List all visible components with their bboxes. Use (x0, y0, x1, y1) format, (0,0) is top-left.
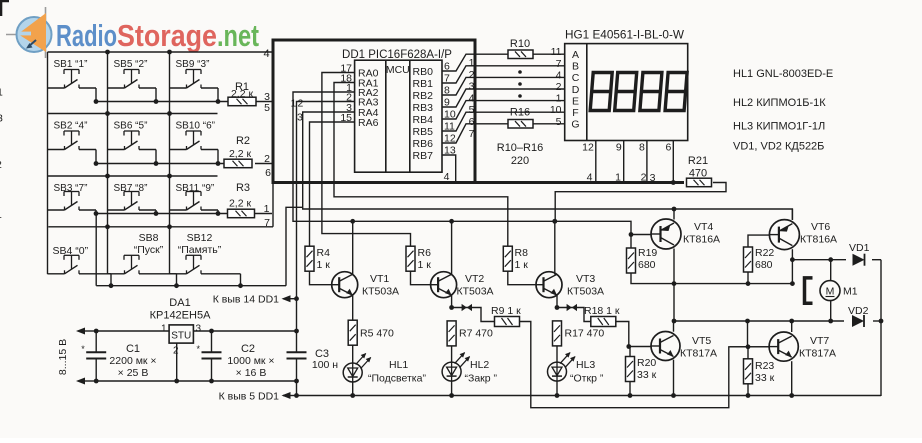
transistor VT6 (769, 220, 837, 250)
svg-text:R10–R16: R10–R16 (497, 142, 543, 154)
wire VT4 to VT5 (672, 249, 677, 324)
svg-text:E: E (572, 95, 579, 107)
pushbutton SB4 (48, 245, 112, 286)
wire motor bottom (674, 319, 882, 324)
pushbutton SB10 "6" (170, 121, 219, 164)
svg-text:5: 5 (264, 102, 270, 114)
svg-text:33 к: 33 к (637, 369, 657, 381)
wire R20 top (629, 347, 630, 357)
pushbutton SB9 "3" (170, 59, 219, 102)
digit select numbers 4 1 2 3 (587, 172, 656, 185)
wire R23 top (747, 347, 749, 359)
svg-text:RB1: RB1 (413, 78, 434, 90)
wire display pin 6 down (671, 141, 676, 185)
wire RB5 to R15 (442, 112, 473, 131)
resistor R21 (687, 155, 712, 187)
svg-text:2: 2 (173, 346, 179, 357)
svg-text:4: 4 (444, 171, 450, 183)
capacitor C3 (287, 331, 339, 381)
svg-text:2: 2 (298, 98, 304, 110)
svg-text:VT2: VT2 (465, 273, 484, 285)
svg-text:C: C (572, 72, 580, 84)
display digit 3 (640, 73, 662, 111)
svg-text:VD1: VD1 (849, 242, 870, 254)
wire RA4 to bridge top (303, 112, 793, 220)
svg-text:VT7: VT7 (810, 335, 829, 347)
svg-text:5: 5 (469, 104, 475, 116)
wire row2 bottom (94, 161, 272, 166)
wire R4 base VT1 (310, 271, 332, 285)
wire row3 bottom (94, 211, 272, 216)
svg-text:220: 220 (511, 155, 529, 167)
wire ground bottom (297, 395, 882, 397)
pin labels 1 2 (291, 98, 304, 110)
wire display pin 12 down (595, 141, 597, 183)
pin labels 2/6 (264, 153, 271, 179)
svg-text:R16: R16 (510, 107, 530, 119)
display HG1 box (565, 44, 688, 141)
svg-text:A: A (572, 49, 579, 61)
svg-text:HL3 КИПМО1Г-1Л: HL3 КИПМО1Г-1Л (733, 121, 825, 133)
svg-text:R23: R23 (755, 360, 774, 372)
power input arrows (76, 328, 96, 385)
svg-text:VT5: VT5 (692, 335, 711, 347)
wire HL2 to ground (449, 381, 454, 398)
transistor VT7 (769, 332, 836, 361)
svg-text:RA6: RA6 (358, 117, 379, 129)
svg-text:4: 4 (264, 48, 270, 60)
svg-text:7: 7 (469, 128, 475, 140)
capacitor C1 (81, 331, 156, 381)
svg-text:“Память”: “Память” (178, 244, 222, 256)
wire VT1 collector (352, 221, 354, 274)
wire segment row (473, 88, 565, 90)
svg-text:КТ816А: КТ816А (800, 234, 837, 246)
wire VT2 to R9 (452, 304, 495, 322)
parts list VD1 VD2 (733, 141, 824, 153)
wire HL3 to ground (555, 381, 560, 398)
svg-text:2,2 к: 2,2 к (231, 88, 254, 100)
svg-text:1 к: 1 к (317, 259, 331, 271)
wire R18 to VT5 base (616, 322, 631, 349)
wire VT7 base (730, 344, 769, 349)
parts list HL2 (733, 97, 826, 109)
LED HL2 (442, 352, 497, 384)
svg-text:2: 2 (264, 153, 270, 165)
svg-text:HL3: HL3 (576, 359, 595, 371)
wire VT7 emitter (789, 361, 794, 398)
svg-text:SB12: SB12 (187, 232, 213, 244)
pushbutton SB6 "5" (108, 121, 157, 164)
svg-text:MCU: MCU (386, 64, 410, 76)
svg-text:2,2 к: 2,2 к (229, 148, 252, 160)
wire VT3 to R18 (557, 304, 591, 322)
wire segment row (473, 100, 565, 102)
svg-text:VT6: VT6 (811, 221, 830, 233)
svg-text:HL1 GNL-8003ED-E: HL1 GNL-8003ED-E (733, 68, 833, 80)
resistor R19 (627, 247, 658, 273)
svg-text:К выв 5 DD1: К выв 5 DD1 (219, 391, 280, 403)
svg-text:1: 1 (0, 209, 2, 221)
svg-text:HL2 КИПМО1Б-1К: HL2 КИПМО1Б-1К (733, 97, 826, 109)
svg-text:1: 1 (0, 87, 3, 99)
svg-text:470: 470 (689, 168, 707, 180)
pin 4 label MCLR (444, 171, 450, 183)
svg-text:1: 1 (469, 57, 475, 69)
label R10-R16 220 (497, 142, 543, 167)
pin 4 label row1 (264, 48, 270, 60)
resistor R17 (553, 321, 605, 346)
svg-text:2: 2 (0, 159, 2, 171)
svg-text:R10: R10 (510, 38, 530, 50)
resistor R16 (508, 107, 533, 129)
display digit 4 (665, 73, 687, 111)
svg-text:1: 1 (556, 93, 562, 105)
pushbutton SB12 (170, 232, 241, 286)
svg-text:R7 470: R7 470 (459, 328, 493, 340)
svg-text:680: 680 (638, 259, 656, 271)
wire R5 to HL1 (352, 345, 354, 363)
DD1 right pin numbers (444, 61, 456, 157)
wire keyboard column 1 (47, 52, 49, 274)
transistor VT1 (332, 272, 399, 298)
svg-text:SB4 “0”: SB4 “0” (53, 245, 89, 257)
svg-text:VT3: VT3 (576, 273, 595, 285)
parts list HL3 (733, 121, 825, 133)
resistor R1 (228, 97, 256, 106)
wire HL1 to ground (350, 382, 355, 398)
svg-text:*: * (81, 344, 85, 354)
svg-text:SB9 “3”: SB9 “3” (176, 59, 210, 70)
wire +5V rail (293, 92, 633, 248)
wire RB3 to R13 (442, 89, 473, 107)
wire keyboard column 3 (167, 52, 172, 274)
svg-text:КТ816А: КТ816А (683, 234, 720, 246)
resistor R4 (305, 246, 330, 271)
svg-text:“Откр ”: “Откр ” (570, 373, 604, 385)
ellipsis dots R11-R15 (518, 70, 522, 98)
display digit 2 (615, 73, 637, 111)
svg-text:3: 3 (196, 324, 202, 335)
svg-text:М: М (826, 286, 835, 298)
display bottom pin numbers (582, 142, 671, 154)
svg-text:R20: R20 (637, 357, 656, 369)
svg-text:RadioStorage.net: RadioStorage.net (56, 18, 259, 53)
pushbutton SB3 "7" (48, 183, 97, 213)
svg-text:C1: C1 (126, 343, 140, 355)
wire ground rail (94, 379, 299, 384)
wire VT4 emitter (673, 209, 675, 220)
pushbutton SB8 (108, 232, 177, 286)
svg-text:33 к: 33 к (755, 372, 775, 384)
wire VT5 collector (673, 321, 675, 332)
svg-text:D: D (572, 84, 580, 96)
wire segment row (473, 76, 565, 78)
resistor R6 (406, 246, 431, 271)
svg-text:RB0: RB0 (413, 66, 434, 78)
label R2 (229, 135, 252, 160)
pushbutton SB5 "2" (108, 59, 157, 102)
svg-text:HG1 E40561-I-BL-0-W: HG1 E40561-I-BL-0-W (565, 30, 684, 42)
svg-text:R17 470: R17 470 (565, 328, 605, 340)
wire R17 to HL3 (556, 347, 558, 363)
svg-text:4: 4 (556, 69, 562, 81)
wire RA6 to R4 (310, 122, 355, 246)
wire segment row (473, 111, 565, 113)
svg-text:SB1 “1”: SB1 “1” (54, 59, 88, 70)
wire RA3 +5V vertical (294, 102, 355, 334)
wire R20 to ground (628, 382, 633, 398)
wire R9 to VT7 base (520, 322, 770, 408)
wire R23 to ground (746, 384, 751, 398)
svg-text:2200 мк ×: 2200 мк × (109, 355, 156, 367)
edge clipped digits (0, 87, 3, 222)
wire keyboard row 3 top (48, 175, 218, 177)
resistor R10 (508, 38, 533, 59)
svg-text:VD1, VD2 КД522Б: VD1, VD2 КД522Б (733, 141, 824, 153)
diode VD1 (849, 242, 870, 266)
display digit 1 (590, 73, 612, 111)
label HG1 E40561-I-BL-0-W (565, 30, 684, 42)
wire R19 bottom (631, 273, 795, 286)
svg-text:VD2: VD2 (848, 305, 869, 317)
svg-text:1000 мк ×: 1000 мк × (227, 355, 274, 367)
wire DA1 pin2 (176, 343, 178, 381)
wire RA0 to R6 (322, 73, 411, 247)
capacitor C2 (197, 331, 275, 381)
transistor VT3 (536, 272, 604, 298)
resistor R23 (744, 359, 775, 384)
resistor R20 (626, 357, 657, 382)
svg-text:R21: R21 (688, 155, 708, 167)
svg-text:1 к: 1 к (418, 259, 432, 271)
svg-text:6: 6 (265, 167, 271, 179)
wire RB6 to R16 (442, 124, 473, 143)
svg-text:R18 1 к: R18 1 к (584, 305, 620, 317)
svg-text:1: 1 (161, 324, 167, 335)
svg-text:R4: R4 (317, 247, 331, 259)
svg-text:КТ503А: КТ503А (567, 286, 604, 298)
svg-text:КТ503А: КТ503А (362, 286, 399, 298)
svg-text:2,2 к: 2,2 к (229, 198, 252, 210)
RadioStorage.net logo (6, 7, 259, 58)
svg-text:STU: STU (171, 331, 191, 342)
wire VT7 collector (789, 319, 794, 332)
wire RB2 to R12 (442, 77, 473, 95)
label 8-15V (57, 339, 69, 375)
wire VT6 emitter (791, 209, 793, 220)
LED HL3 (548, 352, 604, 384)
svg-text:R2: R2 (236, 135, 250, 147)
svg-text:VT4: VT4 (694, 221, 713, 233)
wire VT6 collector (790, 249, 795, 283)
svg-text:“Закр ”: “Закр ” (465, 373, 498, 385)
pushbutton SB11 "9" (170, 183, 219, 213)
svg-text:RB4: RB4 (413, 114, 434, 126)
svg-text:7: 7 (264, 217, 270, 229)
wire VT2 collector (451, 221, 453, 274)
pin label 3 (297, 112, 303, 124)
wire row4 bottom (96, 213, 286, 288)
svg-text:RB3: RB3 (413, 102, 434, 114)
svg-text:HL1: HL1 (389, 359, 408, 371)
wire VT5 emitter (671, 360, 676, 398)
label DD1 PIC16F628A-I/P (342, 49, 452, 61)
resistor R2 (224, 159, 252, 168)
svg-text:SB11 “9”: SB11 “9” (176, 183, 215, 194)
transistor VT5 (651, 332, 717, 361)
resistor R8 (503, 246, 528, 271)
wire R22 bottom (747, 272, 749, 284)
svg-text:SB7 “8”: SB7 “8” (114, 183, 148, 194)
wire RB7 pin13 down (442, 155, 456, 181)
svg-text:1 к: 1 к (515, 259, 529, 271)
wire VT4 base (631, 234, 651, 236)
resistor R3 (228, 209, 255, 218)
wire R21 return (552, 183, 726, 224)
svg-text:G: G (571, 119, 579, 131)
resistor R5 (348, 320, 394, 345)
svg-text:К выв 14 DD1: К выв 14 DD1 (213, 294, 279, 306)
wire R8 base VT3 (508, 271, 536, 285)
svg-text:SB10 “6”: SB10 “6” (176, 121, 215, 132)
node K vyv 5 DD1 (219, 381, 299, 403)
svg-text:RB6: RB6 (413, 138, 434, 150)
wire keyboard row 4 top (48, 184, 273, 227)
svg-text:C2: C2 (241, 343, 255, 355)
svg-text:“Подсветка”: “Подсветка” (368, 373, 426, 385)
wire display pin 8 down (646, 141, 648, 183)
svg-text:HL2: HL2 (470, 359, 489, 371)
wire VT3 emitter (555, 295, 560, 310)
svg-text:КТ817А: КТ817А (799, 348, 836, 360)
svg-text:3: 3 (469, 81, 475, 93)
wire row A with resistor (473, 53, 565, 55)
pushbutton SB1 "1" (48, 59, 97, 102)
svg-text:× 16 В: × 16 В (236, 367, 267, 379)
unit boundary box (273, 40, 475, 183)
wire keyboard row 2 top (48, 113, 218, 115)
svg-text:8: 8 (639, 142, 645, 154)
wire RB1 to R11 (442, 66, 473, 83)
svg-text:7: 7 (556, 58, 562, 70)
node K vyv 14 DD1 (213, 294, 297, 306)
resistor R22 (744, 247, 775, 272)
wire RA1 to R8 (334, 83, 508, 247)
svg-text:680: 680 (755, 259, 773, 271)
svg-text:КТ817А: КТ817А (680, 348, 717, 360)
svg-text:8...15 В: 8...15 В (57, 339, 69, 375)
wire +12V rail (94, 329, 297, 334)
svg-text:R9 1 к: R9 1 к (491, 305, 521, 317)
svg-text:SB2 “4”: SB2 “4” (54, 121, 88, 132)
svg-text:“Пуск”: “Пуск” (134, 244, 164, 256)
pin labels 3/5 (264, 91, 270, 114)
svg-text:SB5 “2”: SB5 “2” (114, 59, 148, 70)
op-amp U1 microcontroller DD1 PIC16F628A (355, 60, 442, 172)
svg-text:5: 5 (556, 116, 562, 128)
wire R6 base VT2 (411, 271, 431, 285)
wire row4 riser link (286, 207, 303, 285)
svg-text:R5 470: R5 470 (360, 328, 394, 340)
wire motor top (792, 257, 881, 262)
wire row1 bottom (94, 99, 272, 104)
wire row G with resistor (473, 123, 565, 125)
wire right rail (879, 260, 884, 396)
pin labels 1/7 (264, 203, 271, 229)
svg-text:F: F (572, 107, 578, 119)
DD1 left pin numbers (340, 63, 352, 125)
transistor VT2 (431, 272, 494, 298)
svg-text:3: 3 (0, 113, 3, 125)
wire RB4 to R14 (442, 101, 473, 119)
svg-text:КТ503А: КТ503А (457, 286, 494, 298)
svg-text:SB8: SB8 (139, 232, 159, 244)
wire RB0 to R10 (442, 54, 473, 71)
box edge wire numbers 1-7 (469, 57, 475, 140)
svg-text:× 25 В: × 25 В (118, 367, 149, 379)
wire common thick line (475, 181, 684, 184)
pushbutton SB2 "4" (48, 121, 97, 164)
svg-text:B: B (572, 61, 579, 73)
svg-text:RB5: RB5 (413, 126, 434, 138)
scan corner mark (1, 1, 9, 16)
wire VT1 emitter (352, 295, 354, 320)
svg-text:R19: R19 (638, 247, 657, 259)
svg-text:VT1: VT1 (370, 273, 389, 285)
resistor R9 (491, 305, 521, 327)
pushbutton SB7 "8" (108, 183, 157, 213)
svg-text:R6: R6 (418, 247, 432, 259)
transistor VT4 (651, 219, 720, 249)
wire segment row (473, 65, 565, 67)
svg-text:10: 10 (550, 104, 562, 116)
svg-text:6: 6 (665, 142, 671, 154)
svg-text:9: 9 (616, 142, 622, 154)
svg-text:*: * (197, 344, 201, 354)
regulator DA1 (150, 297, 211, 357)
svg-text:2: 2 (556, 81, 562, 93)
wire keyboard row 1 top (48, 50, 273, 55)
wire VT5 base (629, 346, 651, 348)
wire keyboard column 2 (105, 52, 110, 274)
svg-text:DD1 PIC16F628A-I/P: DD1 PIC16F628A-I/P (342, 49, 452, 61)
motor M1 (805, 260, 858, 321)
resistor R18 (584, 305, 620, 327)
resistor R7 (447, 321, 493, 346)
svg-text:3: 3 (297, 112, 303, 124)
LED HL1 (343, 353, 426, 385)
svg-text:RB2: RB2 (413, 90, 434, 102)
svg-text:КР142ЕН5А: КР142ЕН5А (150, 310, 211, 322)
wire VT3 collector (554, 221, 556, 274)
svg-text:12: 12 (582, 142, 594, 154)
svg-text:R8: R8 (515, 247, 529, 259)
svg-text:R22: R22 (755, 247, 774, 259)
label R3 (229, 182, 252, 210)
svg-text:RB7: RB7 (413, 150, 434, 162)
svg-text:1: 1 (264, 203, 270, 215)
label R1 (231, 81, 254, 100)
svg-text:100 н: 100 н (312, 359, 338, 371)
wire output link (745, 319, 750, 347)
wire display pin 9 down (623, 141, 625, 183)
svg-text:6: 6 (469, 116, 475, 128)
parts list HL1 (733, 68, 833, 80)
wire VT2 emitter (449, 295, 454, 310)
wire R7 to HL2 (451, 347, 453, 363)
svg-text:11: 11 (551, 46, 562, 58)
